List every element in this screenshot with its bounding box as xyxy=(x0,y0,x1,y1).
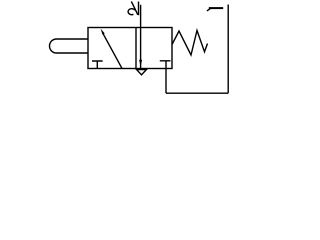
left position blocked port symbol xyxy=(92,61,103,69)
wire port 1 down segment xyxy=(165,69,167,94)
valve V1 body: 3/2-way push-button valve, two position boxes xyxy=(88,28,172,69)
right position flow path (2 to 3 vertical) xyxy=(140,28,142,69)
wire port 2 stub xyxy=(140,5,142,28)
push-button actuator (plunger) xyxy=(50,39,89,53)
exhaust port 3 triangle xyxy=(137,70,147,75)
wire port 1 bottom segment xyxy=(166,92,228,94)
left position flow arrowhead xyxy=(101,29,105,35)
spring return xyxy=(172,31,208,56)
label port 1 (rotated digit 1) xyxy=(207,8,223,11)
left position flow path (1 to 2 diagonal) xyxy=(103,33,122,69)
wire port 1 up segment xyxy=(227,5,229,94)
valve V1 position divider xyxy=(135,28,137,69)
right position flow arrowhead xyxy=(139,60,142,67)
label port 2 (rotated digit 2) xyxy=(128,2,138,16)
right position blocked port symbol (port 1) xyxy=(160,61,171,69)
